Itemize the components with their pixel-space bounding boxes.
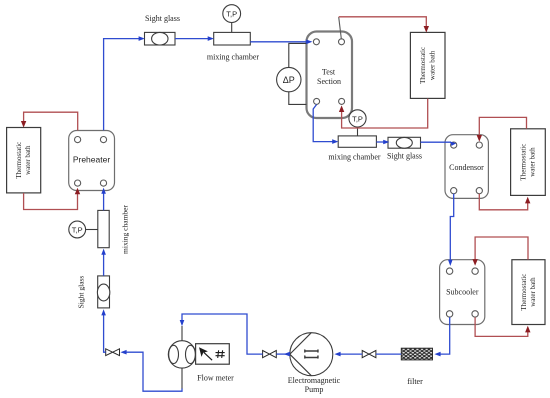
thermostatic water bath B4 (subcooler) [512, 260, 545, 325]
wire: valve V3 to pump inlet (blue) [340, 353, 363, 355]
svg-text:T,P: T,P [352, 114, 363, 123]
wire: MC1 to test section inlet (blue) [250, 41, 307, 43]
thermostatic water bath B3 (condensor) [511, 129, 546, 196]
wire: condensor to subcooler (blue) [450, 194, 453, 261]
wire: subcooler outlet down to filter line (blue) [440, 317, 450, 354]
wire: preheater top outlet up and right (blue) [104, 39, 141, 131]
wire: test section bottom-left to MC2 (blue) [313, 105, 334, 142]
arrow into test section bottom-right port [339, 105, 344, 112]
arrow into bath B2 [424, 26, 429, 33]
svg-text:mixing chamber: mixing chamber [328, 153, 381, 162]
condensor box [445, 135, 488, 199]
svg-text:ΔP: ΔP [283, 75, 295, 85]
arrow into bath B3 bottom [525, 197, 530, 204]
stub: test section top-right to red line (gray) [339, 17, 342, 39]
mixing chamber MC1 (top) with T,P gauge [207, 5, 260, 62]
arrow into condensor top-left port [450, 142, 456, 146]
svg-text:Sight glass: Sight glass [387, 152, 422, 161]
svg-text:Sight glass: Sight glass [145, 14, 180, 23]
arrow into valve V1 [120, 350, 126, 355]
test section U (rounded box) [307, 32, 353, 119]
svg-text:Section: Section [317, 77, 341, 86]
wire: preheater to bath B1 top (red) [24, 112, 78, 130]
svg-text:Electromagnetic: Electromagnetic [288, 376, 341, 385]
arrow into MC2 [332, 139, 338, 144]
svg-text:filter: filter [407, 377, 423, 386]
wire: pump outlet to valve V2 (blue) [276, 353, 289, 355]
arrow into preheater bottom-left port [75, 188, 80, 195]
arrow into preheater bottom-right port [101, 188, 106, 194]
wire: subcooler bottom-right to bath B4 bottom (red) [475, 317, 528, 336]
dP gauge on test section [277, 43, 307, 104]
thermostatic water bath B1 (preheater) [7, 128, 41, 193]
arrow into filter [434, 352, 440, 357]
subcooler box [440, 260, 485, 325]
wire: filter to valve V3 (blue) [376, 353, 401, 355]
arrow into bath B4 bottom [525, 326, 530, 333]
wire: valve V1 to SG3 (blue) [104, 314, 106, 352]
svg-text:Thermostaticwater bath: Thermostaticwater bath [15, 142, 32, 179]
arrow into flow meter top [180, 320, 185, 326]
sight glass SG1 (top) [145, 14, 180, 45]
svg-text:Preheater: Preheater [73, 155, 110, 165]
arrow into subcooler top-left port [448, 260, 453, 266]
wire: SG3 to MC3 (blue) [103, 254, 105, 276]
arrow into pump [334, 352, 340, 357]
valve V3 (pump inlet) [362, 351, 376, 358]
svg-text:Thermostaticwater bath: Thermostaticwater bath [519, 144, 536, 181]
svg-text:mixing chamber: mixing chamber [207, 52, 260, 61]
arrow at pump outlet [284, 352, 290, 357]
svg-text:Condensor: Condensor [449, 163, 484, 172]
wire: bath B4 top to subcooler top-right port (red) [475, 237, 528, 260]
sight glass SG2 (before condensor) [387, 137, 422, 160]
svg-text:Sight glass: Sight glass [76, 276, 85, 309]
wire: bath B1 bottom to preheater bottom-left port (red) [24, 193, 78, 210]
wire: SG2 to condensor (blue) [421, 141, 452, 143]
wire: condensor bottom-right to bath B3 bottom (red) [479, 194, 527, 210]
mixing chamber MC2 (test section outlet) [328, 136, 381, 162]
svg-text:Pump: Pump [305, 385, 324, 394]
svg-text:T,P: T,P [72, 226, 83, 235]
arrow into condensor top-right port [477, 135, 482, 142]
svg-text:Flow meter: Flow meter [197, 373, 234, 382]
wire: SG1 to MC1 (blue) [175, 38, 210, 40]
arrow into subcooler top-right port [472, 259, 477, 266]
wire: bath B2 bottom to test section bottom-right port (red) [342, 99, 428, 128]
valve V2 (pump outlet) [263, 351, 277, 358]
svg-text:Thermostaticwater bath: Thermostaticwater bath [419, 47, 436, 84]
wire: bath B3 top to condensor top-right port (red) [479, 117, 526, 136]
sight glass SG3 (vertical) [76, 276, 110, 309]
arrow into test section top-left port [306, 40, 312, 45]
svg-text:Test: Test [322, 68, 336, 77]
valve V1 (before vertical sight glass) [106, 349, 120, 356]
arrow into SG1 [139, 36, 145, 41]
filter [401, 348, 432, 386]
preheater box [69, 131, 115, 191]
svg-text:mixing chamber: mixing chamber [120, 205, 129, 254]
wire: test section to bath B2 top (red) [339, 17, 427, 28]
arrow into SG2 [383, 140, 389, 145]
arrow into MC3 bottom [101, 249, 106, 255]
wire: flow meter bottom to valve V1 (blue) [126, 352, 183, 391]
electromagnetic pump [288, 333, 341, 395]
wire: valve V2 up and over to flow meter (blue) [182, 314, 263, 354]
flow meter [168, 326, 234, 389]
svg-text:Thermostaticwater bath: Thermostaticwater bath [520, 274, 537, 311]
wire: MC2 to SG2 (blue) [376, 141, 385, 143]
svg-text:T,P: T,P [226, 10, 237, 19]
wire: MC3 to preheater bottom port (blue) [103, 193, 105, 211]
arrow into bath B1 [21, 121, 26, 128]
mixing chamber MC3 (vertical, below preheater) with T,P gauge [69, 205, 130, 254]
svg-text:Subcooler: Subcooler [446, 288, 479, 297]
arrow into SG3 bottom [101, 309, 106, 315]
T,P gauge at test section outlet [349, 110, 366, 136]
arrow into MC1 [208, 36, 214, 41]
thermostatic water bath B2 (test section) [410, 32, 445, 98]
